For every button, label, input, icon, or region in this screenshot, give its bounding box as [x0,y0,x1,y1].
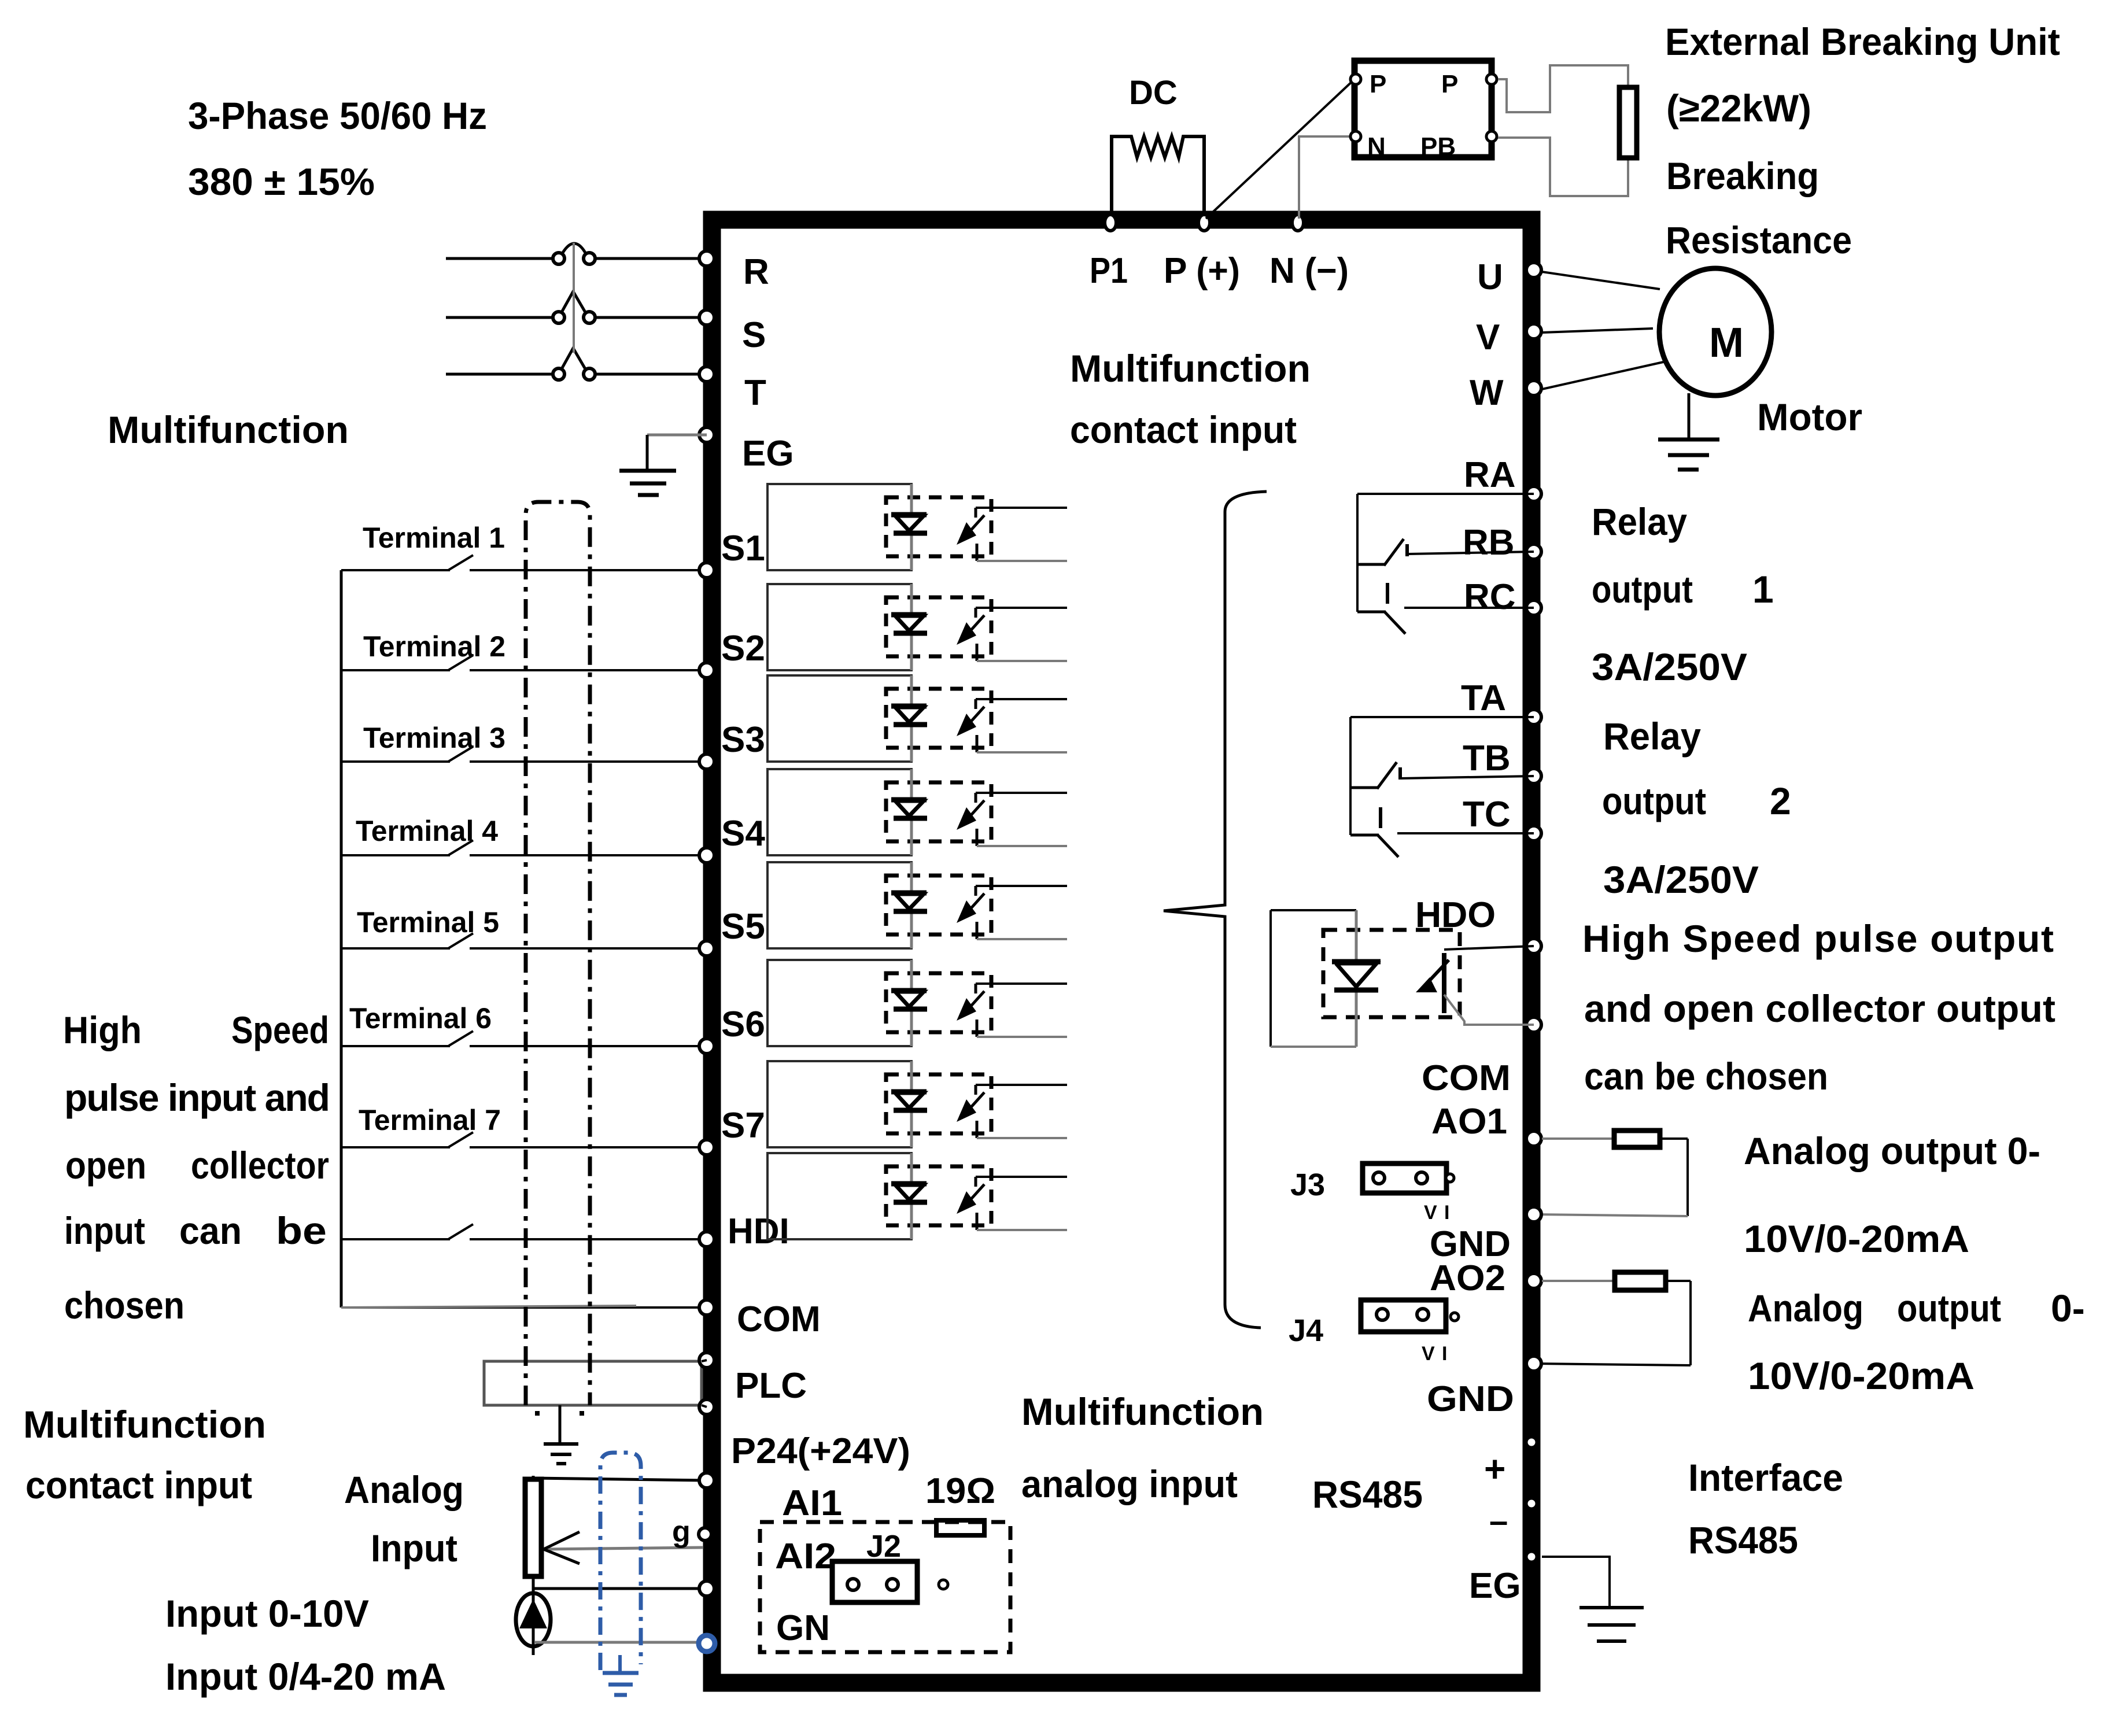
pot wiper arrow [544,1547,703,1549]
terminal AO1 [1526,1131,1541,1146]
svg-text:3A/250V: 3A/250V [1603,858,1759,901]
terminal S [699,310,714,325]
wire HDI from bus [341,1238,450,1240]
pin PB [1486,131,1497,142]
dashed box analog input select [760,1522,1010,1652]
svg-text:contact input: contact input [25,1464,252,1506]
svg-text:Input 0-10V: Input 0-10V [165,1592,369,1635]
svg-text:DC: DC [1129,74,1178,112]
optocoupler S2 dashed box [886,597,991,656]
switch blade S4 [448,840,473,855]
wire U to motor [1542,272,1660,289]
wire S4 to terminal [470,854,707,856]
svg-text:Input: Input [371,1527,457,1569]
optocoupler S1 dashed box [886,497,991,556]
svg-text:T: T [744,373,766,413]
svg-text:HDI: HDI [728,1211,789,1251]
optocoupler HDO loop [1271,909,1356,911]
terminal g [699,1528,711,1541]
optocoupler S1 LED [910,484,913,570]
jumper J3 external pin [1446,1174,1454,1182]
switch blade S1 [448,555,473,570]
wire S2 to terminal [470,669,707,671]
wire S5 to terminal [470,947,707,950]
shield termination box PLC [484,1361,702,1405]
optocoupler S4 dashed box [886,782,991,841]
svg-text:Terminal 7: Terminal 7 [359,1104,501,1136]
breaker pole T blade [562,348,585,369]
resistor AO2 [1615,1272,1666,1290]
terminal T [699,367,714,382]
svg-text:S1: S1 [721,529,765,568]
terminal GND analog (blue) [699,1635,715,1652]
svg-text:(≥22kW): (≥22kW) [1666,87,1811,130]
svg-text:10V/0-20mA: 10V/0-20mA [1748,1354,1975,1397]
breaker contact circles R [553,253,564,264]
ground symbol EG left [619,469,676,473]
terminal S4 [699,848,714,863]
current source symbol [516,1593,551,1646]
shield dash-dot blue [600,1453,641,1670]
svg-text:1: 1 [1752,568,1774,611]
relay 2 NC contact TB [1350,786,1378,789]
potentiometer [525,1479,541,1576]
wire S6 from bus [341,1045,450,1047]
terminal PLC [699,1353,714,1368]
svg-text:Analog: Analog [344,1468,464,1511]
wire COM from bus [341,1306,707,1309]
wire EG to ground [647,434,707,437]
svg-text:GND: GND [1427,1379,1514,1419]
optocoupler S3 phototransistor [975,699,977,709]
svg-text:10V/0-20mA: 10V/0-20mA [1744,1217,1969,1260]
svg-text:chosen: chosen [64,1284,184,1327]
svg-text:COM: COM [1422,1058,1511,1098]
svg-text:RB: RB [1463,523,1515,563]
svg-text:input: input [64,1209,145,1252]
svg-text:S4: S4 [721,814,765,854]
svg-text:S2: S2 [721,629,765,668]
jumper J4 external pin [1451,1313,1459,1321]
svg-text:S6: S6 [721,1004,765,1044]
wire PLC box to terminals [702,1360,707,1361]
wire W to motor [1542,362,1663,389]
svg-text:Input 0/4-20 mA: Input 0/4-20 mA [165,1655,446,1698]
svg-text:Multifunction: Multifunction [1070,347,1311,390]
svg-text:Analog: Analog [1748,1287,1863,1329]
optocoupler S7 input rectangle [767,1061,911,1147]
svg-text:J4: J4 [1289,1313,1323,1348]
shield dash-dot line left [526,502,590,1405]
switch blade S5 [448,933,473,948]
svg-text:EG: EG [1469,1566,1521,1606]
svg-text:Terminal 1: Terminal 1 [363,522,505,554]
breaker contact circles T [553,368,564,380]
svg-text:External Breaking Unit: External Breaking Unit [1665,20,2060,63]
terminal TB [1526,769,1541,784]
terminal S7 [699,1140,714,1155]
optocoupler S5 phototransistor [975,886,977,896]
wire S7 from bus [341,1146,450,1148]
switch blade HDI [448,1224,473,1239]
svg-text:P: P [1370,70,1386,98]
wire S1 from bus [341,569,450,571]
ground symbol motor [1658,438,1719,442]
optocoupler S7 LED [910,1061,913,1147]
terminal RA [1526,486,1541,501]
svg-text:V: V [1476,317,1500,357]
wire T input right segment [596,373,707,376]
svg-text:19Ω: 19Ω [925,1471,995,1511]
svg-text:Speed: Speed [231,1009,329,1051]
terminal RB [1526,544,1541,559]
svg-text:AI2: AI2 [775,1536,836,1576]
optocoupler S5 LED [910,862,913,948]
optocoupler S3 input rectangle [767,675,911,762]
ground symbol EG right [1579,1606,1644,1609]
svg-text:GN: GN [776,1608,830,1648]
svg-text:S7: S7 [721,1106,765,1146]
jumper J3 [1363,1164,1446,1193]
wire current source to GND [535,1641,707,1644]
terminal EG right [1526,1552,1537,1562]
left input bus wire [340,570,343,1307]
optocoupler S4 LED [910,769,913,855]
svg-text:I: I [1444,1202,1449,1224]
terminal W [1526,381,1541,396]
switch blade S7 [448,1132,473,1147]
terminal S2 [699,663,714,678]
svg-text:PB: PB [1420,132,1456,161]
svg-text:RA: RA [1464,455,1516,495]
optocoupler S7 phototransistor [975,1085,977,1095]
svg-text:be: be [276,1209,327,1252]
terminal GND2 right [1526,1356,1541,1371]
optocoupler S2 input rectangle [767,584,911,670]
svg-text:output: output [1897,1287,2001,1329]
breaker contact circles S [553,312,564,323]
wire R input right segment [596,257,707,260]
svg-text:PLC: PLC [735,1366,807,1406]
optocoupler HDI phototransistor [975,1177,977,1187]
wire S1 to terminal [470,569,707,571]
svg-text:Terminal 4: Terminal 4 [356,815,498,847]
svg-text:pulse input and: pulse input and [64,1076,330,1119]
svg-text:380 ± 15%: 380 ± 15% [188,160,375,203]
svg-text:S3: S3 [721,720,765,760]
svg-text:AI1: AI1 [782,1483,842,1523]
pin P left [1350,74,1361,84]
terminal AI1 [699,1473,714,1488]
svg-text:S: S [742,315,766,355]
wire T input left segment [446,373,552,376]
svg-text:AO2: AO2 [1430,1258,1505,1298]
svg-text:J3: J3 [1290,1168,1325,1202]
wire N(-) to breaking unit N [1299,136,1350,219]
wire R input left segment [446,257,552,260]
svg-text:S5: S5 [721,907,765,947]
terminal P24 [699,1399,714,1414]
wire S2 from bus [341,669,450,671]
optocoupler HDI dashed box [886,1166,991,1225]
terminal COM left [699,1300,714,1315]
optocoupler S6 input rectangle [767,960,911,1046]
optocoupler S7 dashed box [886,1074,991,1133]
breaker pole S blade [562,291,585,312]
terminal U [1526,263,1541,278]
wire S input left segment [446,316,552,319]
svg-text:Terminal 6: Terminal 6 [349,1002,492,1035]
wire motor to ground [1688,393,1691,439]
terminal S6 [699,1039,714,1054]
svg-text:Multifunction: Multifunction [23,1403,266,1446]
svg-text:COM: COM [737,1299,821,1339]
optocoupler HDO dashed box [1323,930,1460,1017]
switch blade S3 [448,747,473,762]
svg-text:U: U [1477,257,1503,297]
svg-text:Terminal 5: Terminal 5 [357,906,499,939]
pin N [1350,131,1361,142]
wire S4 from bus [341,854,450,856]
optocoupler S4 input rectangle [767,769,911,855]
optocoupler S1 phototransistor [975,508,977,518]
optocoupler S3 dashed box [886,689,991,748]
svg-text:3A/250V: 3A/250V [1592,645,1747,688]
wire pot bottom to AI2 [533,1576,707,1589]
terminal V [1526,324,1541,339]
resistor AO1 [1614,1131,1660,1147]
terminal R [699,251,714,266]
svg-text:Relay: Relay [1592,500,1687,543]
wire P(+) to breaking unit P [1206,79,1355,219]
svg-text:2: 2 [1770,780,1791,822]
optocoupler HDO phototransistor [1442,953,1446,1013]
svg-text:V: V [1424,1202,1437,1224]
svg-text:Multifunction: Multifunction [108,408,349,451]
svg-text:P (+): P (+) [1164,251,1240,291]
svg-text:can be chosen: can be chosen [1584,1055,1828,1098]
svg-text:Analog output 0-: Analog output 0- [1744,1129,2040,1172]
relay 1 common wire [1357,493,1534,495]
terminal RS485 + [1526,1437,1537,1447]
svg-text:3-Phase 50/60 Hz: 3-Phase 50/60 Hz [188,94,487,137]
wire AO1 loop with resistor [1542,1137,1614,1140]
wire S3 to terminal [470,760,707,763]
svg-text:+: + [1484,1448,1505,1490]
svg-text:V: V [1422,1343,1435,1365]
svg-text:can: can [179,1209,242,1252]
svg-text:–: – [1489,1502,1508,1540]
optocoupler HDI input rectangle [767,1153,911,1239]
terminal RS485 - [1526,1498,1537,1509]
svg-text:M: M [1709,320,1744,366]
breaker gang linkage [573,243,575,353]
grouping brace [1164,492,1267,1328]
wire pot top to AI1 [532,1476,535,1479]
svg-text:Motor: Motor [1757,396,1862,438]
optocoupler S6 dashed box [886,973,991,1032]
terminal P(+) [1198,215,1210,231]
svg-text:P: P [1441,70,1458,98]
optocoupler S2 phototransistor [975,608,977,618]
pin P right [1486,74,1497,84]
wire P to breaking resistor [1498,65,1628,112]
jumper J4 [1361,1300,1446,1332]
svg-text:TC: TC [1463,795,1511,834]
svg-text:P1: P1 [1090,251,1128,291]
svg-text:Terminal 2: Terminal 2 [363,630,505,663]
optocoupler S5 dashed box [886,876,991,935]
svg-text:I: I [1442,1343,1447,1365]
wire AO2 loop with resistor [1542,1280,1615,1282]
svg-text:AO1: AO1 [1431,1102,1507,1142]
svg-text:Resistance: Resistance [1666,219,1852,261]
terminal TC [1526,826,1541,841]
wire S input right segment [596,316,707,319]
breaker pole R arc [563,243,585,253]
ground symbol blue [618,1655,622,1673]
optocoupler HDO LED [1355,910,1358,1047]
svg-text:N: N [1367,132,1386,161]
optocoupler S3 LED [910,675,913,762]
svg-text:contact input: contact input [1070,408,1297,451]
svg-text:J2: J2 [866,1529,901,1564]
terminal AI2 [699,1581,714,1596]
svg-text:RS485: RS485 [1688,1519,1798,1561]
svg-text:EG: EG [742,434,794,474]
switch blade S6 [448,1031,473,1046]
jumper J2 external pin [939,1580,948,1589]
svg-text:Breaking: Breaking [1666,154,1819,197]
svg-text:Relay: Relay [1603,715,1701,758]
wire S3 from bus [341,760,450,763]
svg-text:RS485: RS485 [1312,1473,1423,1516]
terminal RC [1526,600,1541,615]
optocoupler S6 phototransistor [975,984,977,993]
terminal TA [1526,710,1541,725]
terminal HDO [1526,939,1541,954]
optocoupler S2 LED [910,584,913,670]
optocoupler HDI LED [910,1153,913,1239]
resistor breaking resistance [1619,87,1637,158]
terminal AO2 [1526,1273,1541,1288]
terminal P1 [1105,215,1116,231]
motor M circle [1659,268,1772,396]
ground symbol under PLC box [559,1405,562,1444]
svg-text:P24(+24V): P24(+24V) [731,1431,910,1471]
relay 1 NO contact RC [1386,583,1389,604]
wire V to motor [1542,328,1653,333]
svg-text:and open collector output: and open collector output [1584,987,2055,1030]
svg-text:output: output [1592,568,1693,611]
svg-text:R: R [743,252,769,292]
optocoupler S4 phototransistor [975,793,977,803]
inverter main box [712,220,1531,1683]
svg-text:Interface: Interface [1688,1456,1843,1499]
wire S7 to terminal [470,1146,707,1148]
svg-text:g: g [672,1515,691,1549]
relay 2 NO contact TC [1379,807,1382,828]
switch blade S2 [448,655,473,670]
svg-text:output: output [1602,780,1706,822]
wire EG right to ground [1542,1557,1610,1608]
terminal S5 [699,941,714,956]
inductor DC reactor [1112,136,1204,215]
wire S5 from bus [341,947,450,950]
optocoupler S5 input rectangle [767,862,911,948]
svg-text:Multifunction: Multifunction [1021,1390,1264,1433]
relay 1 NC contact RB [1357,563,1385,566]
relay 2 common wire [1350,716,1534,718]
svg-text:open: open [65,1144,146,1187]
terminal S1 [699,563,714,578]
svg-text:Terminal 3: Terminal 3 [363,722,505,754]
resistor 19 ohm [936,1520,984,1535]
terminal GND1 right [1526,1207,1541,1222]
svg-text:TA: TA [1461,678,1506,718]
jumper J2 [832,1561,917,1602]
svg-text:High Speed pulse output: High Speed pulse output [1582,917,2054,960]
svg-text:collector: collector [191,1144,329,1187]
optocoupler S1 input rectangle [767,484,911,570]
wire PB to breaking resistor [1498,138,1628,196]
wire S6 to terminal [470,1045,707,1047]
terminal HDI [699,1232,714,1247]
svg-text:0-: 0- [2051,1287,2085,1329]
terminal N(-) [1292,215,1304,231]
terminal S3 [699,754,714,769]
svg-text:analog input: analog input [1021,1462,1238,1505]
optocoupler S6 LED [910,960,913,1046]
wire HDI to terminal [470,1238,707,1240]
svg-text:W: W [1470,373,1504,413]
breaking unit box [1355,61,1492,157]
svg-text:RC: RC [1464,577,1516,617]
terminal COM right [1526,1017,1541,1032]
terminal EG left [699,427,714,442]
svg-text:High: High [63,1009,142,1051]
svg-text:N (−): N (−) [1269,251,1349,291]
svg-text:TB: TB [1463,738,1511,778]
